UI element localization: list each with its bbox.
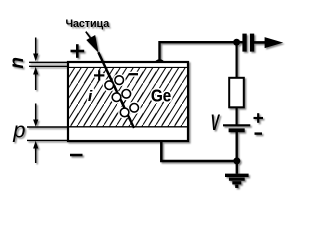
svg-text:Ge: Ge [151, 85, 171, 106]
particle track through crystal [98, 52, 134, 128]
p layer extension lines [27, 127, 68, 140]
output arrow [265, 37, 284, 48]
wire junction to capacitor [237, 41, 243, 43]
ground [225, 161, 249, 186]
arrowhead down at n top [33, 54, 38, 62]
wire top electrode to junction [160, 42, 237, 61]
minus sign in crystal [129, 72, 138, 77]
arrowhead up at p bottom [33, 141, 38, 149]
circle pair 1 [105, 81, 114, 90]
n layer bottom line [69, 66, 188, 68]
p layer top line [69, 126, 188, 128]
battery minus sign [255, 132, 263, 134]
plus sign above crystal [71, 44, 85, 58]
battery plus sign [254, 113, 264, 123]
arrowhead down at p top [33, 120, 38, 127]
wire capacitor to output arrow [254, 41, 266, 44]
wire bottom electrode to ground junction [161, 142, 237, 162]
svg-text:Частица: Частица [66, 18, 111, 30]
junction node top [233, 39, 240, 46]
Ge crystal block [68, 62, 188, 141]
n layer extension lines [29, 62, 68, 66]
arrowhead up at n bottom [33, 67, 38, 75]
contact blob on top electrode [155, 59, 164, 63]
circle pair 2 [112, 93, 121, 102]
dimension line lower (p layer) [35, 104, 37, 164]
wire battery to ground junction [235, 132, 237, 161]
wire junction to resistor [236, 42, 238, 78]
particle track within circle cluster [107, 72, 130, 120]
plus sign in crystal [94, 70, 104, 80]
label Ge [151, 85, 171, 106]
label V [211, 109, 221, 135]
svg-text:p: p [12, 117, 25, 142]
particle arrowhead [86, 35, 98, 53]
i region hatch [69, 68, 187, 127]
svg-text:V: V [211, 109, 221, 135]
svg-text:n: n [7, 57, 28, 69]
white halo behind electron-hole pair circles [103, 74, 141, 119]
minus sign below crystal [70, 154, 83, 157]
wire resistor to battery [236, 107, 238, 125]
battery V plate - [229, 128, 245, 132]
battery V plate + [223, 124, 250, 126]
particle track tail [86, 32, 91, 38]
capacitor C [242, 34, 246, 52]
junction node bottom [233, 157, 240, 164]
dimension line upper (n layer) [35, 38, 37, 91]
circle pair 3 [120, 108, 129, 117]
resistor R [229, 78, 244, 108]
